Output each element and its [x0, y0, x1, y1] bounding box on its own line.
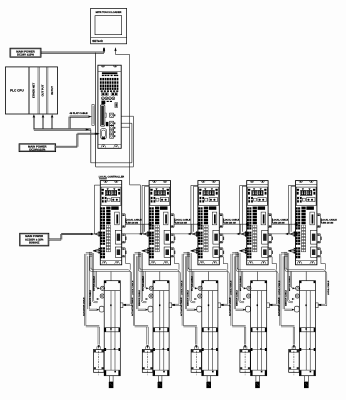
svg-text:MITR TOUCH LOADER: MITR TOUCH LOADER [96, 11, 122, 14]
actuator 4 body joints [251, 327, 267, 329]
wire: touch loader to main controller communication line [115, 48, 117, 55]
LC4 motor connector [261, 212, 266, 225]
wire: LC5 encoder tab drop [320, 257, 322, 264]
LC3 upper terminal block [198, 207, 200, 209]
wire: LC3 loop cable bridge to actuator 3 connectors [186, 252, 188, 269]
PLC ethernet module [37, 67, 39, 114]
LC4 front display panel [248, 187, 268, 205]
LC5 sensor connector [311, 247, 317, 257]
wire: main power dc24v to touch loader [41, 51, 104, 53]
LC3 encoder connector [213, 230, 219, 244]
wire: main controller port3 to local bus [121, 126, 129, 128]
svg-text:ETHER NET: ETHER NET [32, 83, 35, 99]
LC4 sensor connector [262, 247, 268, 257]
LC1 top mounting screws [103, 181, 107, 183]
LC2 motor connector [164, 212, 169, 225]
actuator 2 brake connector [148, 306, 153, 312]
actuator 4 body [251, 281, 267, 376]
LC2 middle terminal strip [155, 207, 159, 210]
LC4 seven segment display [252, 190, 263, 195]
main controller top mounting screws [101, 65, 105, 67]
actuator 5 body joints [299, 327, 315, 329]
LC1 sensor connector [115, 247, 121, 257]
actuator 4 motor [240, 349, 250, 372]
main power DC24V block (lower) [19, 144, 56, 152]
local controller LC4 module body [247, 181, 268, 265]
wire: loop cable into actuator 5 right connector [318, 303, 325, 305]
actuator cable from LC4 (brake wire) [236, 254, 239, 256]
LC1 right side local-bus tabs [122, 214, 126, 228]
wire: local bus LC2 to LC3 lower [174, 233, 201, 235]
LC4 power input terminals [247, 232, 249, 234]
wire: PLC output to flat cable bus [42, 117, 44, 129]
actuator 5 right side connector [316, 303, 319, 308]
LC1 front display panel [101, 187, 121, 205]
actuator cable bundle from LC4 (motor wire) [232, 252, 239, 254]
actuator 2 body joints [153, 327, 169, 329]
main power AC200V block [20, 233, 49, 246]
LC1 keypad cross [102, 197, 107, 203]
wire: power/sense loop below main controller [91, 162, 132, 164]
svg-text:LOCAL CABLE: LOCAL CABLE [224, 219, 240, 222]
LC1 IO terminals lower [100, 247, 102, 249]
LC5 middle terminal strip [301, 207, 305, 210]
LC4 upper terminal block [247, 207, 249, 209]
actuator 5 internal guide rails [305, 291, 307, 371]
actuator 3 clamp brackets [202, 281, 204, 283]
actuator 2 internal guide rails [159, 291, 161, 371]
actuator 2 sensor connector [149, 294, 153, 298]
LC5 name plate [306, 206, 314, 209]
svg-text:LOCAL CABLE: LOCAL CABLE [175, 219, 191, 222]
LC5 motor connector [310, 212, 315, 225]
LC4 middle terminal strip [253, 207, 257, 210]
LC3 seven segment display [203, 190, 214, 195]
LC1 signal entry fork [93, 249, 100, 251]
LC4 right side local-bus tabs [268, 214, 272, 228]
LC5 IO terminals lower [296, 247, 298, 249]
actuator 2 body [153, 281, 169, 376]
PLC CPU module [27, 67, 29, 114]
wire: bridge tap down to actuator 5 motor connector [289, 271, 291, 287]
actuator 1 brake connector [99, 306, 104, 312]
LC5 power entry fork [290, 232, 296, 234]
wire: main controller port2 to power loop [121, 122, 132, 124]
svg-text:MOTOR CABLE: MOTOR CABLE [239, 275, 242, 291]
actuator 3 right side connector [218, 303, 221, 308]
actuator cable from LC3 (brake wire) [187, 254, 190, 256]
LC5 front display panel [296, 187, 316, 205]
LC2 keypad cross [151, 197, 156, 203]
svg-text:ACTUATOR CABLE: ACTUATOR CABLE [82, 297, 85, 316]
wire: local bus LC3 to LC4 lower [223, 233, 250, 235]
LC3 front display panel [199, 187, 219, 205]
wire: LC1 encoder tab drop [125, 257, 127, 264]
wire: local bus LC3 to LC4 upper [223, 223, 250, 225]
LC2 IO terminals lower [149, 247, 151, 249]
wire: loop cable into actuator 4 right connector [270, 303, 277, 305]
main controller status LEDs row [101, 90, 103, 92]
LC3 power input terminals [198, 232, 200, 234]
actuator 1 body [104, 281, 120, 376]
wire: loop cable into actuator 2 right connector [172, 303, 179, 305]
PLC rack block [6, 67, 58, 114]
actuator 3 body [202, 281, 218, 376]
svg-text:DC24V ±10%: DC24V ±10% [17, 53, 34, 57]
actuator 4 internal guide rails [256, 291, 258, 371]
actuator 2 rod [158, 376, 162, 382]
LC5 seven segment display [301, 190, 312, 195]
wire: bus jog between LC3 and LC4 [240, 224, 242, 234]
LC3 bottom mounting screws [200, 261, 205, 264]
actuator cable from LC1 (sensor wire) [91, 253, 93, 300]
main controller I/O terminal grid [100, 78, 102, 81]
svg-text:SETech: SETech [92, 39, 103, 43]
LC5 upper terminal block [296, 207, 298, 209]
LC4 bottom mounting screws [248, 261, 253, 264]
PLC output module [46, 67, 48, 114]
svg-text:0.5M 1M 3M: 0.5M 1M 3M [175, 221, 187, 224]
actuator cable from LC1 (brake wire) [89, 254, 92, 256]
LC5 encoder connector [311, 230, 317, 244]
main controller rotary switches [102, 97, 105, 100]
LC5 bottom mounting screws [297, 261, 302, 264]
actuator 5 motor power connector [296, 286, 300, 290]
LC3 IO terminals lower [198, 247, 200, 249]
LC4 signal entry fork [239, 249, 246, 251]
main controller module body [98, 65, 121, 148]
LC3 motor connector [212, 212, 217, 225]
actuator 3 top cap [202, 290, 218, 292]
wire: main controller port1 to power loop [121, 115, 133, 117]
actuator 1 clamp brackets [104, 281, 106, 283]
local controller LC3 module body [198, 181, 219, 265]
svg-text:SENSOR CABLE: SENSOR CABLE [236, 289, 239, 306]
wire: loop cable into actuator 1 right connector [123, 303, 130, 305]
wire: PLC flat cable bus to main controller [34, 128, 91, 130]
svg-text:SENSOR CABLE: SENSOR CABLE [187, 289, 190, 306]
LC5 power input terminals [296, 232, 298, 234]
local controller LC1 module body [100, 181, 121, 265]
svg-text:IN PUT: IN PUT [51, 86, 54, 95]
LC4 name plate [258, 206, 266, 209]
LC3 right side local-bus tabs [219, 214, 223, 228]
wire: local bus LC4 to LC5 upper [271, 223, 298, 225]
svg-text:ACTUATOR CABLE: ACTUATOR CABLE [278, 297, 281, 316]
LC3 keypad cross [200, 197, 205, 203]
LC1 left feeder wires [94, 184, 100, 186]
LC2 encoder connector [164, 230, 170, 244]
LC3 signal entry fork [191, 249, 198, 251]
svg-text:48 FLAT CABLE: 48 FLAT CABLE [70, 112, 89, 115]
actuator 1 body joints [104, 327, 120, 329]
svg-text:LOCAL CABLE: LOCAL CABLE [126, 219, 142, 222]
actuator 4 motor power connector [247, 286, 251, 290]
wire: LC4 loop cable bridge to actuator 4 connectors [235, 252, 237, 269]
LC2 power entry fork [143, 232, 149, 234]
wire: local communication bus drop to controller row [130, 184, 141, 186]
actuator 4 sensor connector [247, 294, 251, 298]
LC1 bottom mounting screws [102, 261, 107, 264]
actuator 4 clamp brackets [251, 281, 253, 283]
wire: LC5 loop cable bridge to actuator 5 connectors [284, 252, 286, 269]
actuator cable from LC4 (sensor wire) [238, 253, 240, 300]
LC4 IO terminals lower [247, 247, 249, 249]
actuator 4 brake connector [246, 306, 251, 312]
svg-text:DC24V±10%: DC24V±10% [29, 148, 46, 152]
LC2 upper terminal block [149, 207, 151, 209]
svg-text:0.5M 1M 3M: 0.5M 1M 3M [321, 221, 333, 224]
actuator 3 motor [191, 349, 201, 372]
actuator 5 sensor connector [295, 294, 299, 298]
actuator 4 right side connector [267, 303, 270, 308]
LC2 name plate [160, 206, 168, 209]
wire: local bus LC1 to LC2 lower [125, 233, 152, 235]
actuator 2 clamp brackets [153, 281, 155, 283]
LC4 top mounting screws [250, 181, 254, 183]
main controller dip switch blocks [101, 93, 108, 96]
main controller small port [106, 122, 109, 126]
actuator 3 internal guide rails [208, 291, 210, 371]
actuator 4 top cap [251, 290, 267, 292]
actuator 1 motor power connector [100, 286, 104, 290]
LC2 power input terminals [149, 232, 151, 234]
svg-text:0.5M 1M 3M: 0.5M 1M 3M [272, 221, 284, 224]
wire: AC200V supply to local controller 1 [49, 238, 61, 240]
svg-text:SENSOR CABLE: SENSOR CABLE [284, 289, 287, 306]
svg-text:SENSOR CABLE: SENSOR CABLE [138, 289, 141, 306]
wire: local bus LC2 to LC3 upper [174, 223, 201, 225]
actuator 1 right side connector [120, 303, 123, 308]
LC2 front display panel [150, 187, 170, 205]
actuator 2 motor [142, 349, 152, 372]
svg-text:0.5M 1M 3M: 0.5M 1M 3M [224, 221, 236, 224]
LC5 top mounting screws [299, 181, 303, 183]
actuator cable from LC5 (sensor wire) [287, 253, 289, 300]
actuator cable bundle from LC5 (motor wire) [281, 252, 288, 254]
svg-text:LOCAL CABLE: LOCAL CABLE [272, 219, 288, 222]
LC2 top mounting screws [152, 181, 156, 183]
LC3 left feeder wires [191, 184, 198, 186]
svg-text:ACTUATOR CABLE: ACTUATOR CABLE [229, 297, 232, 316]
LC1 upper terminal block [100, 207, 102, 209]
actuator cable bundle from LC3 (motor wire) [183, 252, 190, 254]
LC4 encoder connector [262, 230, 268, 244]
main controller external flat-cable plug [92, 105, 94, 126]
wire: lower DC24V supply to main controller power connector [56, 145, 78, 147]
svg-text:0.5M 1M 3M: 0.5M 1M 3M [126, 221, 138, 224]
LC4 power entry fork [241, 232, 247, 234]
actuator 5 motor [289, 349, 299, 372]
LC3 sensor connector [213, 247, 219, 257]
touch screen loader [91, 8, 127, 43]
LC1 seven segment display [105, 190, 116, 195]
wire: bridge tap down to actuator 4 motor connector [240, 271, 242, 287]
main controller name plate text [102, 72, 118, 74]
main controller indicator marks [101, 101, 105, 105]
actuator 1 motor [94, 349, 104, 372]
actuator cable bundle from LC1 (motor wire) [86, 252, 93, 254]
actuator 4 rod [256, 376, 260, 382]
wire: bridge tap down to actuator 3 motor connector [192, 271, 194, 287]
LC4 keypad cross [248, 197, 253, 203]
LC1 name plate [111, 206, 119, 209]
actuator 3 motor power connector [198, 286, 202, 290]
LC5 right side local-bus tabs [317, 214, 321, 228]
svg-text:ACTUATOR CABLE: ACTUATOR CABLE [180, 297, 183, 316]
wire: bridge tap down to actuator 2 motor connector [143, 271, 145, 287]
wire: LC2 loop cable bridge to actuator 2 connectors [137, 252, 139, 269]
actuator 3 body joints [202, 327, 218, 329]
wire: LC2 encoder tab drop [174, 257, 176, 264]
wire: branch from DC24V line down left side of main controller [95, 53, 97, 167]
LC1 encoder connector [115, 230, 121, 244]
actuator 1 sensor connector [100, 294, 104, 298]
main controller power connector (oval) [100, 129, 106, 139]
LC1 middle terminal strip [106, 207, 110, 210]
main controller aux connector upper-right [115, 103, 118, 108]
actuator 1 internal guide rails [110, 291, 112, 371]
local controller LC2 module body [149, 181, 170, 265]
actuator cable from LC2 (brake wire) [138, 254, 141, 256]
wire: bus jog between LC1 and LC2 [142, 224, 144, 234]
wire: loop cable into actuator 3 right connector [221, 303, 228, 305]
actuator 3 sensor connector [198, 294, 202, 298]
svg-text:LOCAL CABLE: LOCAL CABLE [321, 219, 337, 222]
actuator cable from LC2 (sensor wire) [140, 253, 142, 300]
actuator 5 clamp brackets [300, 281, 302, 283]
wire: bridge tap down to actuator 1 motor connector [94, 271, 96, 287]
actuator 1 rod [110, 376, 114, 382]
LC5 keypad cross [297, 197, 302, 203]
LC3 power entry fork [192, 232, 198, 234]
LC2 right side local-bus tabs [171, 214, 175, 228]
LC4 left feeder wires [240, 184, 247, 186]
svg-text:50/60HZ: 50/60HZ [29, 242, 40, 245]
actuator 2 top cap [153, 290, 169, 292]
actuator 2 right side connector [169, 303, 172, 308]
actuator cable from LC5 (brake wire) [284, 254, 287, 256]
wire: PLC input to flat cable bus [51, 117, 53, 129]
wire: LC1 loop cable bridge to actuator 1 connectors [89, 252, 91, 269]
LC2 sensor connector [164, 247, 170, 257]
main controller bottom mounting screws [101, 145, 106, 148]
LC2 bottom mounting screws [151, 261, 156, 264]
wire: LC3 encoder tab drop [222, 257, 224, 264]
LC2 left feeder wires [142, 184, 149, 186]
main controller SS-NET connector (D-sub) [100, 105, 105, 126]
actuator 3 brake connector [197, 306, 202, 312]
actuator 3 rod [207, 376, 211, 382]
LC1 motor connector [115, 212, 120, 225]
actuator cable from LC3 (sensor wire) [189, 253, 191, 300]
svg-text:SENSOR CABLE: SENSOR CABLE [89, 289, 92, 306]
wire: bus jog between LC4 and LC5 [289, 224, 291, 234]
main controller local-line connectors column [110, 113, 114, 117]
svg-text:ACTUATOR CABLE: ACTUATOR CABLE [131, 297, 134, 316]
LC2 seven segment display [154, 190, 165, 195]
local controller LC5 module body [296, 181, 317, 265]
LC2 signal entry fork [142, 249, 149, 251]
LC1 power input terminals [100, 232, 102, 234]
LC5 signal entry fork [288, 249, 295, 251]
actuator 5 brake connector [294, 306, 299, 312]
LC3 name plate [209, 206, 217, 209]
actuator 5 top cap [299, 290, 315, 292]
actuator 2 motor power connector [149, 286, 153, 290]
actuator 5 body [299, 281, 315, 376]
wire: local bus LC4 to LC5 lower [271, 233, 298, 235]
wire: 48pin flat cable to main controller connector [68, 117, 70, 129]
svg-text:OUT PUT: OUT PUT [41, 84, 44, 96]
actuator 5 rod [305, 376, 309, 382]
wire: PLC ethernet to flat cable bus [32, 117, 34, 129]
wire: LC4 encoder tab drop [271, 257, 273, 264]
wire: local bus LC1 to LC2 upper [125, 223, 152, 225]
LC1 power entry fork [94, 232, 100, 234]
LC3 middle terminal strip [204, 207, 208, 210]
wire: bus jog between LC2 and LC3 [191, 224, 193, 234]
actuator cable bundle from LC2 (motor wire) [135, 252, 142, 254]
svg-text:LOCAL CABLE: LOCAL CABLE [327, 280, 330, 295]
svg-text:PLC CPU: PLC CPU [10, 88, 24, 92]
LC5 left feeder wires [289, 184, 296, 186]
LC3 top mounting screws [201, 181, 205, 183]
actuator 1 top cap [104, 290, 120, 292]
main power DC24V block (upper) [10, 48, 41, 57]
